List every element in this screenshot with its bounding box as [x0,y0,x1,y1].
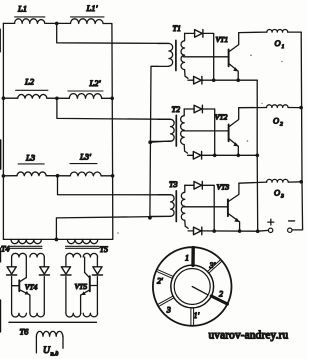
node row1 junction [55,22,59,26]
node ch1 rect bottom [212,78,216,82]
brush lower right thick [211,296,227,304]
commutator outer circle [153,247,232,326]
wire O1 to right bus [288,31,302,33]
wire ch3 top rail [185,184,194,186]
terminal plus circle [268,228,272,232]
node T2 primary on bus [148,140,152,144]
svg-text:L1′: L1′ [86,3,98,13]
svg-text:T2: T2 [172,105,180,114]
wire T5 left outer leg [65,257,67,266]
label L1' [71,16,105,18]
inductor L3' [70,172,101,176]
transistor VT3 [227,199,229,216]
transformer T3 primary [150,195,174,217]
wire row3 right end [101,175,113,177]
diode VD2 bottom [193,152,201,160]
node row3 right [111,174,115,178]
node row3 junction [56,174,60,178]
wire ch1 rectifier corner [203,33,214,80]
node row2 left [2,96,6,100]
wire ch2 bottom rail [188,154,194,156]
wire T2 secondary tap to base [183,130,229,132]
node ch2 emitter junction [237,154,241,158]
transformer T4 primary winding [11,239,41,243]
wire ch1 collector to O1 [239,31,267,34]
winding O1 [267,29,288,32]
wire T6 right lead [62,336,64,348]
diode VD1 bottom [194,76,202,84]
svg-text:п.д: п.д [51,350,59,357]
inductor L1' [71,19,104,24]
wire T3 secondary tap to base [183,206,227,208]
commutator ring outer [171,265,214,308]
svg-text:1: 1 [185,253,189,262]
svg-text:3: 3 [280,194,284,200]
svg-text:T5: T5 [100,245,108,254]
core T5 [66,246,100,248]
diode VD T5 right [92,267,102,275]
wire row2 right end [102,97,113,99]
transistor VT1 [228,50,230,67]
svg-text:L2′: L2′ [89,78,101,88]
transformer T5 secondary winding right loop [83,253,97,257]
diode VD T5 left [61,267,71,275]
commutator ring inner [174,269,210,305]
svg-text:O: O [274,189,280,198]
divider bottom double [191,308,194,326]
node row3 left [2,174,6,178]
wire series drop chain [256,80,259,231]
node chain ch2 [255,154,259,158]
inductor L1 [15,19,45,24]
wire ch1 bottom rail [188,79,194,81]
svg-text:1′: 1′ [194,311,200,320]
winding O3 [267,179,289,182]
core T2 [175,115,177,146]
scan specks [117,55,282,234]
label plus [268,219,274,225]
svg-text:VT2: VT2 [215,113,228,122]
wire O3 to right bus [288,181,302,183]
node T3 return on feed line [55,238,59,242]
core T3 [175,191,177,222]
label L3' [70,163,97,165]
diode VD1 top [195,30,203,38]
svg-text:L2: L2 [24,76,35,86]
winding O2 [267,105,289,108]
inductor L2' [69,94,101,99]
svg-text:3: 3 [166,305,171,314]
wire T5 right outer leg [96,257,98,266]
wire ch2 collector to O2 [239,107,267,109]
wire ch3 rectifier corner [202,185,214,231]
diode VD3 top [194,182,202,190]
wire ch2 top rail [184,108,194,110]
wire row3 main [3,175,17,177]
inductor T6 winding [36,331,62,336]
svg-text:L3: L3 [25,152,35,162]
transformer T1 secondary [181,33,188,78]
brush top thick [191,248,195,266]
node O3 bus [299,180,303,184]
svg-text:VT5: VT5 [75,282,88,291]
svg-text:2: 2 [280,122,283,128]
node ch1 emitter junction [236,78,240,82]
node chain ch3 [256,229,260,233]
divider 156deg [156,269,173,278]
inductor L2 [18,94,47,98]
svg-text:T1: T1 [173,24,181,33]
wire T5 inner right leg [84,257,86,272]
label L1 [15,16,45,18]
transformer T2 primary [150,119,174,141]
divider 209deg [158,296,175,307]
svg-text:O: O [273,117,279,126]
wire O2 to right bus [288,107,302,109]
wire T4 inner left leg [25,257,27,278]
inductor L3 [17,172,46,176]
diode VD T4 right [39,267,49,275]
node row2 right [110,97,114,101]
svg-text:2: 2 [219,289,223,298]
wire row2 main [3,97,17,99]
wire tap1 to T1 primary [57,23,169,43]
svg-text:2′: 2′ [157,276,163,285]
wire ch1 top rail [185,32,195,34]
wire T4 inner right leg [29,295,31,313]
transformer T3 secondary [181,185,188,228]
wire row1 main [3,22,14,24]
wire T5 inner left leg [80,295,82,313]
svg-text:VT3: VT3 [217,182,230,191]
divider 42deg [207,260,222,273]
svg-text:O: O [275,39,281,48]
svg-text:VT1: VT1 [216,35,229,44]
wire T1 secondary tap to base [183,56,228,58]
wire left phase bus [2,23,4,239]
terminal minus circle [288,228,292,232]
label minus [289,220,295,222]
node ch3 emitter junction [238,229,242,233]
wire ch3 collector to O3 [239,182,267,183]
node row2 junction [55,97,59,101]
transistor VT5 [89,276,91,291]
wire ch2 rectifier corner [202,109,214,155]
wire row2 mid [47,97,69,99]
wire row3 mid [46,175,70,177]
wire primary common bus [150,66,158,217]
wire T3 primary bottom return [56,216,170,239]
wire tap3 to T3 primary [58,176,171,195]
diode VD T4 left [7,267,17,275]
wire tap2 to T2 primary [57,98,171,119]
svg-text:3′: 3′ [209,261,216,270]
scan edge artifact [0,29,2,332]
wire right neutral bus [3,24,112,240]
svg-text:L3′: L3′ [79,152,91,162]
transformer T1 primary [151,44,173,67]
label L3 [18,163,44,165]
transformer T2 secondary [181,109,188,153]
core T4 [9,246,43,248]
wire right bus [292,32,303,230]
svg-text:L1: L1 [17,4,27,14]
label L2 [16,89,48,91]
transformer T5 primary winding [67,239,97,243]
wire T4 left outer leg [11,257,13,266]
svg-text:uvarov-andrey.ru: uvarov-andrey.ru [209,329,289,341]
wire ch3 bottom rail [188,230,193,232]
transistor VT2 [228,125,230,142]
wire T4 right outer leg [43,257,45,266]
core T6 bar [9,321,97,323]
node ch3 rect bottom [212,229,216,233]
node O2 bus [299,106,303,110]
rotor pointer [192,287,208,295]
diode VD3 bottom [194,227,202,235]
wire ch3 rail to plus terminal [258,229,269,232]
wire T2 primary bottom [150,141,170,142]
wire T6 left lead [35,336,37,353]
wire row1 mid [45,22,71,24]
svg-text:VT4: VT4 [25,283,38,292]
transformer T4 secondary winding right loop [30,253,44,257]
wire row1 right end [103,23,112,25]
diode VD2 top [194,105,202,113]
transistor VT4 [18,280,20,291]
node ch2 rect bottom [213,154,217,158]
node mid bus T3 line [148,216,152,220]
svg-text:T3: T3 [169,180,177,189]
transformer T5 secondary winding left loop [66,253,81,257]
svg-text:T6: T6 [20,328,30,337]
transformer T4 secondary winding left loop [12,253,27,257]
label L2' [68,90,103,92]
node feed line center [55,238,59,242]
svg-text:1: 1 [282,44,285,50]
core T1 [175,40,177,70]
